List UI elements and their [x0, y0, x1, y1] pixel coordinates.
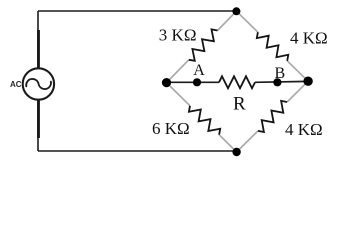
- svg-text:4 KΩ: 4 KΩ: [285, 120, 323, 139]
- wire: middle horizontal rail resistor to B to right node: [255, 80, 308, 83]
- wire: gray diagonal top node to 4K resistor: [236, 11, 258, 32]
- wire: gray diagonal 4K resistor to right node: [287, 61, 308, 81]
- node B dot: [273, 78, 281, 86]
- node A dot: [193, 78, 201, 86]
- wire: gray diagonal 3K resistor to left node: [167, 60, 189, 83]
- wire: AC source thick bottom lead: [37, 99, 40, 138]
- resistor 4K zigzag (bottom-right arm): [258, 101, 287, 132]
- node: right junction: [303, 77, 312, 86]
- wire: AC source thick top lead: [37, 30, 40, 69]
- resistor 4K zigzag (top-right arm): [257, 32, 289, 61]
- node: top junction: [232, 7, 240, 15]
- node: left junction: [162, 78, 171, 87]
- wire: gray diagonal bottom node to lower 4K resistor: [237, 131, 258, 152]
- resistor 3K zigzag (top-left arm): [189, 29, 218, 60]
- wire: gray diagonal lower 4K resistor to right node: [287, 81, 308, 102]
- svg-text:B: B: [275, 65, 286, 82]
- resistor 6K zigzag (bottom-left arm): [189, 106, 220, 135]
- svg-text:4 KΩ: 4 KΩ: [290, 29, 328, 48]
- wire: middle horizontal rail left node to A to resistor: [167, 81, 220, 83]
- svg-text:3 KΩ: 3 KΩ: [159, 25, 197, 44]
- AC source V1 (circle with sine): [23, 68, 54, 99]
- wire: bottom horizontal from source to bottom node: [38, 150, 236, 152]
- svg-text:AC: AC: [10, 80, 22, 89]
- wire: left vertical through AC source: [37, 11, 39, 151]
- wire: top horizontal from source to top node: [38, 10, 236, 12]
- svg-text:6 KΩ: 6 KΩ: [152, 119, 190, 138]
- wire: gray diagonal 6K resistor to bottom node: [219, 135, 237, 152]
- svg-text:A: A: [193, 62, 205, 79]
- resistor R zigzag (middle): [219, 76, 255, 88]
- svg-text:R: R: [233, 94, 246, 115]
- wire: gray diagonal left node to 6K resistor: [167, 83, 191, 106]
- node: bottom junction: [232, 148, 240, 156]
- wire: gray diagonal top node to 3K resistor: [218, 11, 237, 30]
